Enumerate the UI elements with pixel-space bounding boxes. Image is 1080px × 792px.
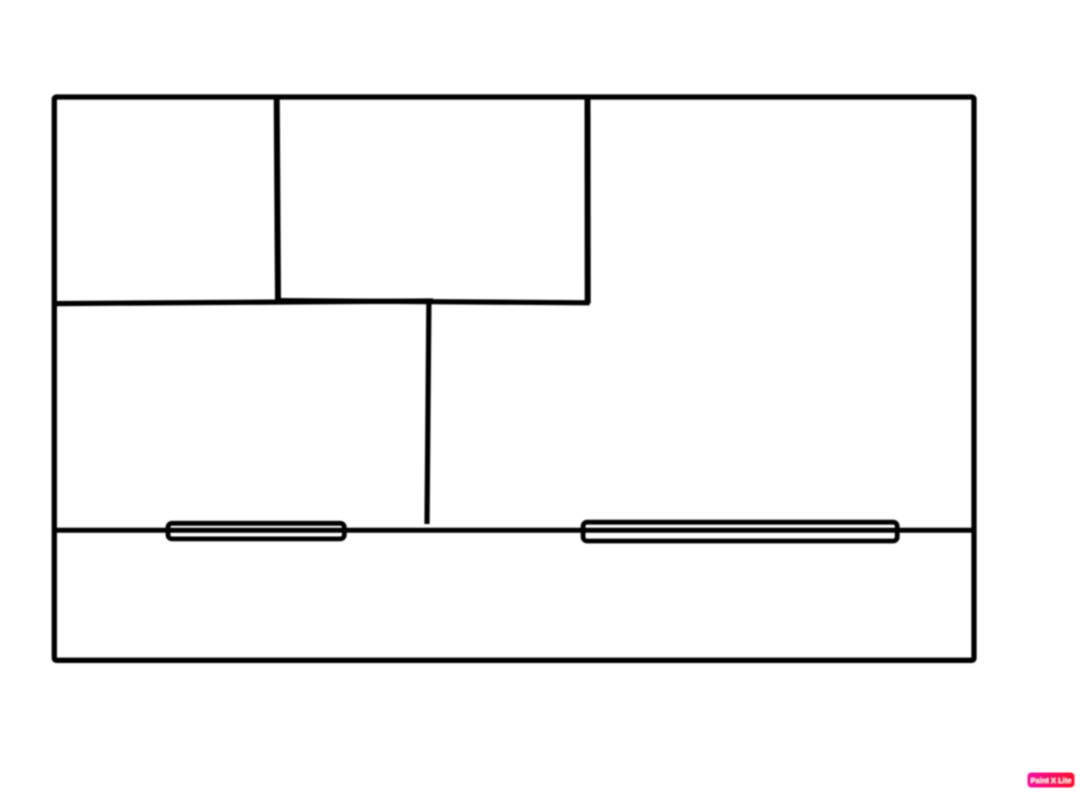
svg-text:Paint X Lite: Paint X Lite (1031, 776, 1072, 785)
